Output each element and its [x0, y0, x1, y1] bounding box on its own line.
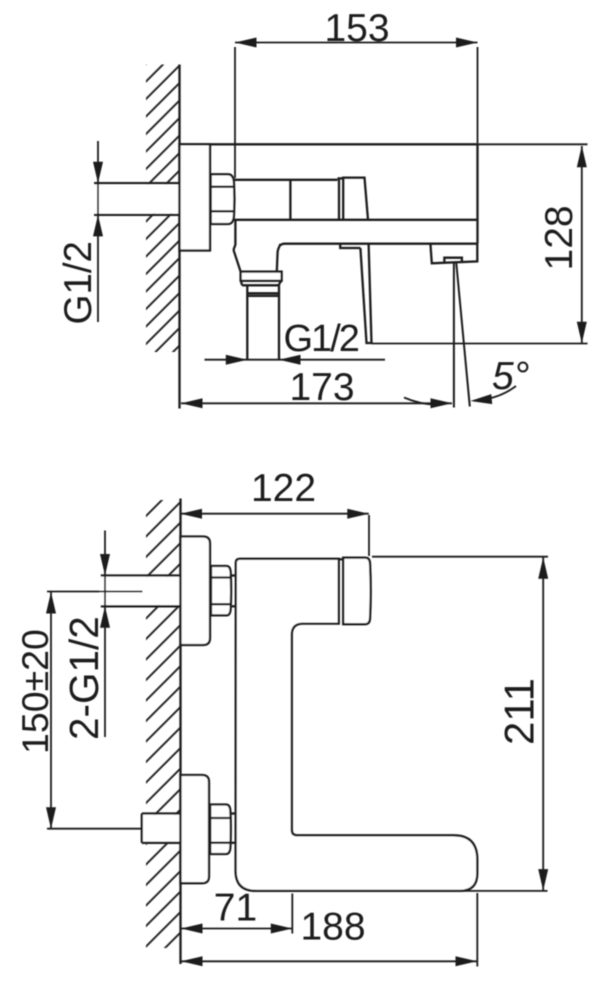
svg-text:188: 188	[300, 906, 365, 949]
svg-text:71: 71	[214, 887, 257, 930]
svg-text:173: 173	[289, 366, 354, 409]
svg-text:150±20: 150±20	[14, 629, 56, 754]
svg-text:211: 211	[496, 678, 543, 745]
svg-text:153: 153	[324, 7, 389, 50]
svg-text:2-G1/2: 2-G1/2	[61, 616, 107, 740]
svg-text:5°: 5°	[492, 355, 529, 398]
svg-text:122: 122	[251, 467, 316, 510]
svg-text:G1/2: G1/2	[284, 318, 359, 360]
svg-text:128: 128	[538, 205, 581, 270]
svg-text:G1/2: G1/2	[57, 241, 100, 324]
